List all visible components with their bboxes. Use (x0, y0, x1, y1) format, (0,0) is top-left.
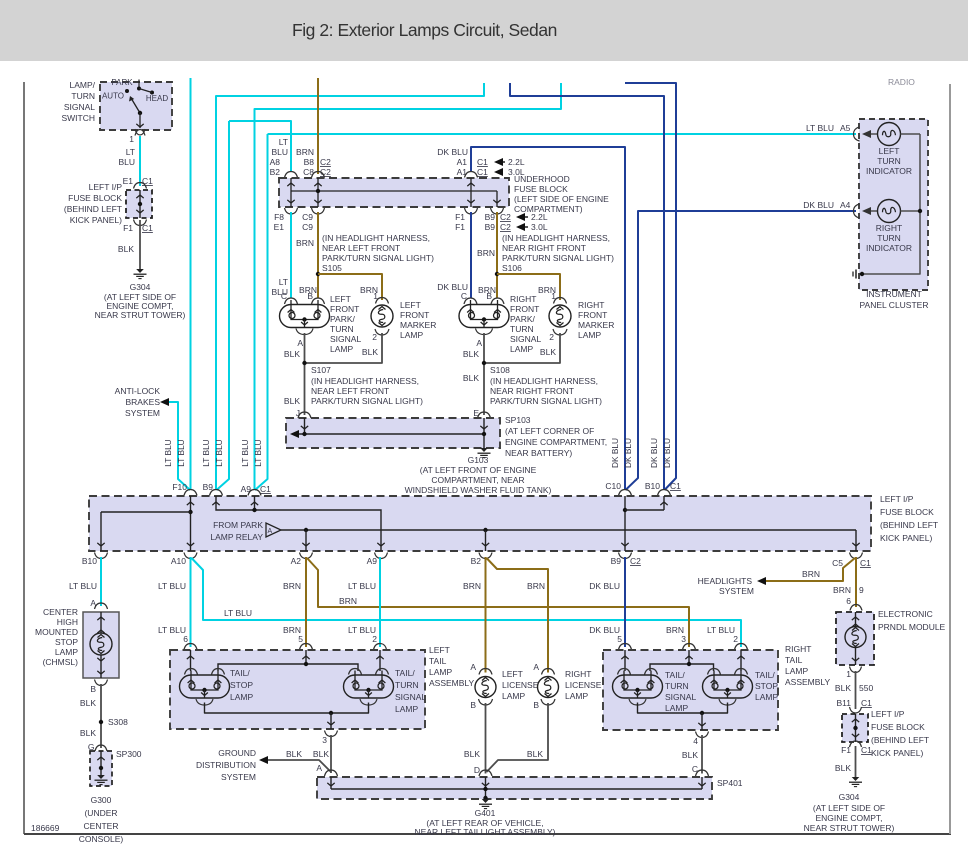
svg-text:2: 2 (733, 634, 738, 644)
svg-text:BLK: BLK (80, 698, 96, 708)
svg-text:A: A (316, 763, 322, 773)
right turn indicator (862, 207, 871, 215)
svg-text:NEAR RIGHT FRONT: NEAR RIGHT FRONT (490, 386, 574, 396)
svg-text:DK BLU: DK BLU (589, 581, 620, 591)
svg-text:(IN HEADLIGHT HARNESS,: (IN HEADLIGHT HARNESS, (502, 233, 610, 243)
svg-text:C1: C1 (861, 698, 872, 708)
wire LT BLU A10 to tail pin6 (190, 557, 192, 647)
wire BRN C5 to PRNDL pin6 (855, 557, 857, 607)
svg-text:RIGHT: RIGHT (565, 669, 591, 679)
svg-text:RIGHT: RIGHT (785, 644, 811, 654)
svg-text:FUSE BLOCK: FUSE BLOCK (514, 184, 568, 194)
svg-text:LAMP: LAMP (502, 691, 525, 701)
connector arcs band bottom (95, 553, 108, 559)
svg-text:MARKER: MARKER (400, 320, 436, 330)
svg-text:LT: LT (279, 277, 288, 287)
connector F1 C1 lower (850, 741, 862, 747)
svg-text:PANEL CLUSTER: PANEL CLUSTER (860, 300, 929, 310)
svg-text:SP300: SP300 (116, 749, 142, 759)
svg-text:A: A (476, 338, 482, 348)
connector arcs band top (184, 490, 197, 496)
svg-text:FRONT: FRONT (400, 310, 429, 320)
svg-text:BLK: BLK (80, 728, 96, 738)
wire BRN B2 branch to right license lamp (487, 558, 549, 673)
svg-text:BLU: BLU (118, 157, 135, 167)
svg-text:2: 2 (549, 332, 554, 342)
wire BLK left license to SP401 D (485, 703, 487, 774)
svg-text:SYSTEM: SYSTEM (719, 586, 754, 596)
svg-text:B: B (486, 291, 492, 301)
svg-text:TURN: TURN (877, 156, 901, 166)
svg-text:SYSTEM: SYSTEM (125, 408, 160, 418)
svg-text:PARK/TURN SIGNAL LIGHT): PARK/TURN SIGNAL LIGHT) (490, 396, 602, 406)
svg-text:FROM PARK: FROM PARK (213, 520, 263, 530)
svg-text:HEADLIGHTS: HEADLIGHTS (698, 576, 753, 586)
svg-text:A: A (297, 338, 303, 348)
svg-text:LAMP/: LAMP/ (69, 80, 95, 90)
svg-text:DK BLU: DK BLU (610, 438, 620, 468)
svg-text:G300: G300 (91, 795, 112, 805)
svg-text:LAMP: LAMP (665, 703, 688, 713)
svg-text:BRN: BRN (463, 581, 481, 591)
svg-text:BLK: BLK (284, 396, 300, 406)
right tail internal wiring (624, 650, 626, 671)
svg-text:BRN: BRN (283, 581, 301, 591)
svg-text:BLK: BLK (464, 749, 480, 759)
wire BRN main vertical (317, 78, 319, 174)
svg-text:BRN: BRN (527, 581, 545, 591)
svg-text:KICK PANEL): KICK PANEL) (70, 215, 122, 225)
svg-text:LAMP RELAY: LAMP RELAY (210, 532, 263, 542)
splice S105 (316, 272, 320, 276)
svg-text:LT BLU: LT BLU (806, 123, 834, 133)
svg-text:BLK: BLK (463, 373, 479, 383)
svg-text:NEAR LEFT FRONT: NEAR LEFT FRONT (311, 386, 389, 396)
svg-text:BLK: BLK (286, 749, 302, 759)
svg-text:LAMP: LAMP (400, 330, 423, 340)
svg-text:PARK: PARK (111, 78, 133, 87)
svg-text:LEFT: LEFT (429, 645, 450, 655)
svg-text:LAMP: LAMP (330, 344, 353, 354)
right tail lamp assembly box (603, 650, 778, 730)
left I/P fuse block lower box (842, 714, 868, 742)
svg-text:3.0L: 3.0L (531, 222, 548, 232)
right license lamp (542, 669, 555, 675)
svg-text:BRAKES: BRAKES (126, 397, 161, 407)
wire BRN A2 to tail pin5 (305, 557, 307, 647)
wire DK BLU F1 to lamp C (470, 212, 472, 298)
svg-text:A: A (268, 528, 273, 535)
svg-text:TURN: TURN (665, 681, 689, 691)
svg-text:B: B (90, 684, 96, 694)
svg-text:PARK/TURN SIGNAL LIGHT): PARK/TURN SIGNAL LIGHT) (322, 253, 434, 263)
svg-text:TURN: TURN (395, 680, 419, 690)
wire BLK CHMSL to S308 (100, 684, 102, 748)
svg-text:LT BLU: LT BLU (214, 439, 224, 466)
wire LT BLU B10 to CHMSL (100, 557, 102, 606)
svg-text:LAMP: LAMP (395, 704, 418, 714)
left tail lamp assembly box (170, 650, 425, 729)
svg-text:E1: E1 (123, 176, 134, 186)
svg-text:S107: S107 (311, 365, 331, 375)
svg-text:(UNDER: (UNDER (84, 808, 117, 818)
svg-text:NEAR LEFT FRONT: NEAR LEFT FRONT (322, 243, 400, 253)
svg-text:C9: C9 (302, 222, 313, 232)
svg-text:LEFT: LEFT (330, 294, 351, 304)
svg-text:C1: C1 (477, 167, 488, 177)
svg-text:LEFT: LEFT (879, 146, 900, 156)
svg-text:INDICATOR: INDICATOR (866, 166, 912, 176)
frame right border (949, 84, 951, 834)
anti-lock brakes system arrow (160, 398, 169, 406)
svg-text:A10: A10 (171, 556, 186, 566)
wire BRN C5 to headlights system (765, 558, 855, 581)
svg-text:LT BLU: LT BLU (253, 439, 263, 466)
switch pin 1 connector (135, 129, 145, 135)
svg-text:6: 6 (846, 596, 851, 606)
svg-text:Fig 2: Exterior Lamps Circuit,: Fig 2: Exterior Lamps Circuit, Sedan (292, 20, 557, 40)
wire LT BLU stub corner to B9 partner (255, 83, 562, 489)
svg-text:DK BLU: DK BLU (437, 147, 468, 157)
svg-text:F1: F1 (841, 745, 851, 755)
svg-text:2: 2 (372, 634, 377, 644)
svg-text:ANTI-LOCK: ANTI-LOCK (115, 386, 161, 396)
svg-text:(BEHIND LEFT: (BEHIND LEFT (880, 520, 938, 530)
svg-text:C2: C2 (320, 157, 331, 167)
pin 1 PRNDL (850, 667, 862, 673)
svg-text:RIGHT: RIGHT (876, 223, 902, 233)
svg-text:LAMP: LAMP (565, 691, 588, 701)
svg-text:HEAD: HEAD (146, 94, 168, 103)
wire LT BLU switch pin1 to E1 (139, 136, 141, 186)
splice pack SP300 box (90, 751, 112, 786)
wire DK BLU B9 to right tail pin5 (624, 557, 626, 647)
svg-text:TAIL: TAIL (785, 655, 803, 665)
svg-text:B2: B2 (471, 556, 482, 566)
splice S106 (495, 272, 499, 276)
svg-text:RIGHT: RIGHT (510, 294, 536, 304)
svg-text:5: 5 (298, 634, 303, 644)
underhood fuse block box (279, 178, 509, 207)
svg-text:B: B (470, 700, 476, 710)
SP401 internal bus (330, 777, 332, 789)
svg-text:WINDSHIELD WASHER FLUID TANK): WINDSHIELD WASHER FLUID TANK) (405, 485, 552, 495)
svg-text:SIGNAL: SIGNAL (64, 102, 95, 112)
svg-text:LAMP: LAMP (510, 344, 533, 354)
svg-text:FUSE BLOCK: FUSE BLOCK (880, 507, 934, 517)
cluster internal return wire (862, 134, 920, 274)
wire BRN S105 branch to marker (318, 274, 382, 300)
svg-text:BRN: BRN (296, 147, 314, 157)
wire BRN C9 to S105 to lamp B (317, 212, 319, 298)
svg-text:LAMP: LAMP (755, 692, 778, 702)
svg-text:LAMP: LAMP (429, 667, 452, 677)
cluster case ground (860, 272, 864, 276)
svg-text:TAIL: TAIL (429, 656, 447, 666)
svg-text:NEAR RIGHT FRONT: NEAR RIGHT FRONT (502, 243, 586, 253)
svg-text:D: D (474, 765, 480, 775)
svg-text:LT BLU: LT BLU (240, 439, 250, 466)
left license lamp (479, 669, 492, 675)
svg-text:550: 550 (859, 683, 873, 693)
svg-text:NEAR STRUT TOWER): NEAR STRUT TOWER) (804, 823, 895, 833)
wire BRN B9 to S106 to lamp B (496, 212, 498, 298)
svg-text:HIGH: HIGH (57, 617, 78, 627)
svg-text:TAIL/: TAIL/ (665, 670, 685, 680)
svg-text:F1: F1 (455, 212, 465, 222)
frame bottom border (24, 833, 951, 835)
svg-text:RADIO: RADIO (888, 77, 915, 87)
left tail/turn signal lamp (344, 675, 394, 698)
svg-text:G103: G103 (468, 455, 489, 465)
svg-text:A1: A1 (457, 157, 468, 167)
wire LT BLU A10 branch to right tail pin2 (192, 558, 742, 647)
engine size arrow 2.2L bottom (516, 213, 525, 221)
wire LT BLU stub corner to B9 (216, 83, 484, 489)
svg-text:6: 6 (183, 634, 188, 644)
svg-text:CONSOLE): CONSOLE) (79, 834, 124, 844)
svg-text:LT BLU: LT BLU (69, 581, 97, 591)
svg-text:BLK: BLK (682, 750, 698, 760)
svg-text:C2: C2 (500, 222, 511, 232)
ground G304 bottom-right (852, 777, 860, 781)
svg-text:BRN: BRN (477, 248, 495, 258)
pin 3 left tail (325, 731, 338, 737)
svg-text:SYSTEM: SYSTEM (221, 772, 256, 782)
title bar (0, 0, 968, 61)
svg-text:5: 5 (617, 634, 622, 644)
svg-text:G304: G304 (130, 282, 151, 292)
svg-text:DK BLU: DK BLU (649, 438, 659, 468)
svg-text:ELECTRONIC: ELECTRONIC (878, 609, 933, 619)
splice pack SP103 box (286, 418, 500, 448)
svg-text:GROUND: GROUND (218, 748, 256, 758)
svg-text:PARK/: PARK/ (510, 314, 536, 324)
wire LT BLU anti-lock branch (168, 402, 190, 490)
svg-text:BLK: BLK (463, 349, 479, 359)
svg-text:FUSE BLOCK: FUSE BLOCK (68, 193, 122, 203)
electronic PRNDL module box (836, 612, 874, 665)
svg-text:BLK: BLK (540, 347, 556, 357)
svg-text:F1: F1 (455, 222, 465, 232)
svg-text:C1: C1 (861, 745, 872, 755)
wire BLK right tail to SP401 C (701, 735, 703, 774)
svg-text:9: 9 (859, 585, 864, 595)
left front marker lamp (376, 298, 389, 304)
band C10 to B10 link (624, 496, 626, 551)
connector arcs underhood top pins (285, 172, 298, 178)
svg-text:(IN HEADLIGHT HARNESS,: (IN HEADLIGHT HARNESS, (490, 376, 598, 386)
ground G401 (482, 799, 490, 803)
svg-text:F10: F10 (172, 482, 187, 492)
svg-text:186669: 186669 (31, 823, 60, 833)
connector F1 C1 (134, 220, 147, 226)
svg-text:(BEHIND LEFT: (BEHIND LEFT (64, 204, 122, 214)
svg-text:PARK/TURN SIGNAL LIGHT): PARK/TURN SIGNAL LIGHT) (502, 253, 614, 263)
svg-text:LT BLU: LT BLU (348, 581, 376, 591)
center high mounted stop lamp box (83, 612, 119, 678)
svg-text:PARK/TURN SIGNAL LIGHT): PARK/TURN SIGNAL LIGHT) (311, 396, 423, 406)
svg-text:(AT LEFT CORNER OF: (AT LEFT CORNER OF (505, 426, 594, 436)
svg-text:BLK: BLK (284, 349, 300, 359)
svg-text:SWITCH: SWITCH (61, 113, 95, 123)
wire BLK right marker 2 to S108 (484, 333, 560, 363)
switch blade arm (131, 98, 140, 113)
svg-text:LAMP: LAMP (785, 666, 808, 676)
pin 4 right tail (696, 732, 709, 738)
svg-text:LICENSE: LICENSE (502, 680, 539, 690)
svg-text:B: B (533, 700, 539, 710)
svg-text:CENTER: CENTER (43, 607, 78, 617)
wire LT BLU main vertical to F10 (190, 78, 192, 489)
svg-text:LT BLU: LT BLU (176, 439, 186, 466)
svg-text:SIGNAL: SIGNAL (395, 692, 426, 702)
svg-text:BLK: BLK (527, 749, 543, 759)
svg-text:ENGINE COMPT,: ENGINE COMPT, (815, 813, 882, 823)
svg-text:INSTRUMENT: INSTRUMENT (866, 289, 922, 299)
svg-text:UNDERHOOD: UNDERHOOD (514, 174, 570, 184)
wire BLK left tail to SP401 A (330, 735, 332, 773)
svg-text:PRNDL MODULE: PRNDL MODULE (878, 622, 946, 632)
svg-text:LEFT I/P: LEFT I/P (89, 182, 123, 192)
svg-text:BLK: BLK (362, 347, 378, 357)
wire LT BLU F8 to lamp C (290, 212, 292, 298)
wire BLK F1 to G304 (139, 220, 141, 269)
svg-text:TURN: TURN (877, 233, 901, 243)
svg-text:A8: A8 (270, 157, 281, 167)
svg-text:B: B (307, 291, 313, 301)
svg-text:LT BLU: LT BLU (158, 581, 186, 591)
svg-text:BRN: BRN (802, 569, 820, 579)
svg-text:(AT LEFT FRONT OF ENGINE: (AT LEFT FRONT OF ENGINE (420, 465, 537, 475)
svg-text:NEAR STRUT TOWER): NEAR STRUT TOWER) (95, 310, 186, 320)
svg-text:C5: C5 (832, 558, 843, 568)
SP103 internal bus (298, 433, 484, 435)
wire DK BLU cluster A4 riser (626, 211, 857, 490)
svg-text:C2: C2 (500, 212, 511, 222)
svg-text:TURN: TURN (71, 91, 95, 101)
svg-text:A: A (533, 662, 539, 672)
svg-text:(LEFT SIDE OF ENGINE: (LEFT SIDE OF ENGINE (514, 194, 609, 204)
instrument panel cluster box (859, 119, 928, 290)
engine size arrow 3.0L top (494, 168, 503, 176)
svg-text:LAMP: LAMP (578, 330, 601, 340)
svg-text:G401: G401 (475, 808, 496, 818)
svg-text:S105: S105 (322, 263, 342, 273)
ground G300 (97, 775, 105, 779)
engine size arrow 3.0L bottom (516, 223, 525, 231)
wire DK BLU stub to B10 (510, 83, 664, 490)
svg-text:LEFT: LEFT (502, 669, 523, 679)
svg-text:C10: C10 (605, 481, 621, 491)
frame left border (23, 82, 25, 834)
svg-text:FRONT: FRONT (510, 304, 539, 314)
wire LT BLU A9 to tail pin2 (379, 557, 381, 647)
svg-text:TURN: TURN (330, 324, 354, 334)
svg-text:LAMP: LAMP (230, 692, 253, 702)
svg-text:B9: B9 (485, 222, 496, 232)
right tail/stop lamp (703, 675, 753, 698)
svg-text:LEFT I/P: LEFT I/P (871, 709, 905, 719)
svg-text:LEFT I/P: LEFT I/P (880, 494, 914, 504)
fuse element lower block (855, 714, 857, 742)
svg-text:4: 4 (693, 736, 698, 746)
svg-text:(IN HEADLIGHT HARNESS,: (IN HEADLIGHT HARNESS, (322, 233, 430, 243)
svg-text:TURN: TURN (510, 324, 534, 334)
svg-text:SP401: SP401 (717, 778, 743, 788)
lamp/turn signal switch box (100, 82, 172, 130)
wire BRN B2 to left license lamp (485, 557, 487, 673)
svg-text:COMPARTMENT, NEAR: COMPARTMENT, NEAR (431, 475, 524, 485)
svg-text:(CHMSL): (CHMSL) (43, 657, 79, 667)
svg-text:B10: B10 (645, 481, 660, 491)
svg-text:LICENSE: LICENSE (565, 680, 602, 690)
svg-text:KICK PANEL): KICK PANEL) (880, 533, 932, 543)
band internal wires (190, 496, 192, 551)
svg-text:C2: C2 (630, 556, 641, 566)
svg-text:ENGINE COMPARTMENT,: ENGINE COMPARTMENT, (505, 437, 607, 447)
svg-text:NEAR LEFT TAILLIGHT ASSEMBLY): NEAR LEFT TAILLIGHT ASSEMBLY) (415, 827, 556, 837)
splice S308 (99, 720, 103, 724)
svg-text:B10: B10 (82, 556, 97, 566)
svg-text:C1: C1 (142, 176, 153, 186)
svg-text:S106: S106 (502, 263, 522, 273)
svg-text:2.2L: 2.2L (508, 157, 525, 167)
splice S108 (482, 361, 486, 365)
left tail internal wiring (190, 650, 192, 671)
svg-text:1: 1 (129, 134, 134, 144)
svg-text:F8: F8 (274, 212, 284, 222)
svg-text:DK BLU: DK BLU (662, 438, 672, 468)
wire BLK left marker 2 to S107 (305, 333, 383, 363)
svg-text:BLK: BLK (835, 683, 851, 693)
left front park/turn signal lamp (280, 305, 330, 328)
svg-text:DISTRIBUTION: DISTRIBUTION (196, 760, 256, 770)
svg-text:C1: C1 (142, 223, 153, 233)
wire BRN S106 branch to marker (497, 274, 560, 300)
svg-text:(IN HEADLIGHT HARNESS,: (IN HEADLIGHT HARNESS, (311, 376, 419, 386)
wire BLK left lamp A to S107 (304, 333, 306, 415)
svg-text:STOP: STOP (55, 637, 78, 647)
splice S107 (302, 361, 306, 365)
svg-text:BLK: BLK (313, 749, 329, 759)
band relay bus (281, 529, 856, 531)
left I/P fuse block (kick panel) box upper (126, 190, 152, 218)
wire LT BLU to cluster A5 and A9 (255, 134, 268, 490)
svg-text:FRONT: FRONT (330, 304, 359, 314)
svg-text:G304: G304 (839, 792, 860, 802)
wire BLK to G304 right (855, 746, 857, 777)
svg-text:AUTO: AUTO (102, 92, 124, 101)
svg-text:2.2L: 2.2L (531, 212, 548, 222)
left tail/stop lamp (180, 675, 230, 698)
left I/P fuse block band box (89, 496, 871, 551)
svg-text:STOP: STOP (230, 680, 253, 690)
svg-text:COMPARTMENT): COMPARTMENT) (514, 204, 583, 214)
left turn indicator (862, 130, 871, 138)
svg-text:TAIL/: TAIL/ (395, 668, 415, 678)
svg-text:DK BLU: DK BLU (589, 625, 620, 635)
svg-text:E1: E1 (274, 222, 285, 232)
svg-text:FRONT: FRONT (578, 310, 607, 320)
svg-text:SP103: SP103 (505, 415, 531, 425)
svg-text:KICK PANEL): KICK PANEL) (871, 748, 923, 758)
wire BLK circuit 550 (855, 671, 857, 709)
svg-text:MARKER: MARKER (578, 320, 614, 330)
svg-text:C9: C9 (302, 212, 313, 222)
svg-text:DK BLU: DK BLU (623, 438, 633, 468)
svg-text:ASSEMBLY: ASSEMBLY (429, 678, 475, 688)
